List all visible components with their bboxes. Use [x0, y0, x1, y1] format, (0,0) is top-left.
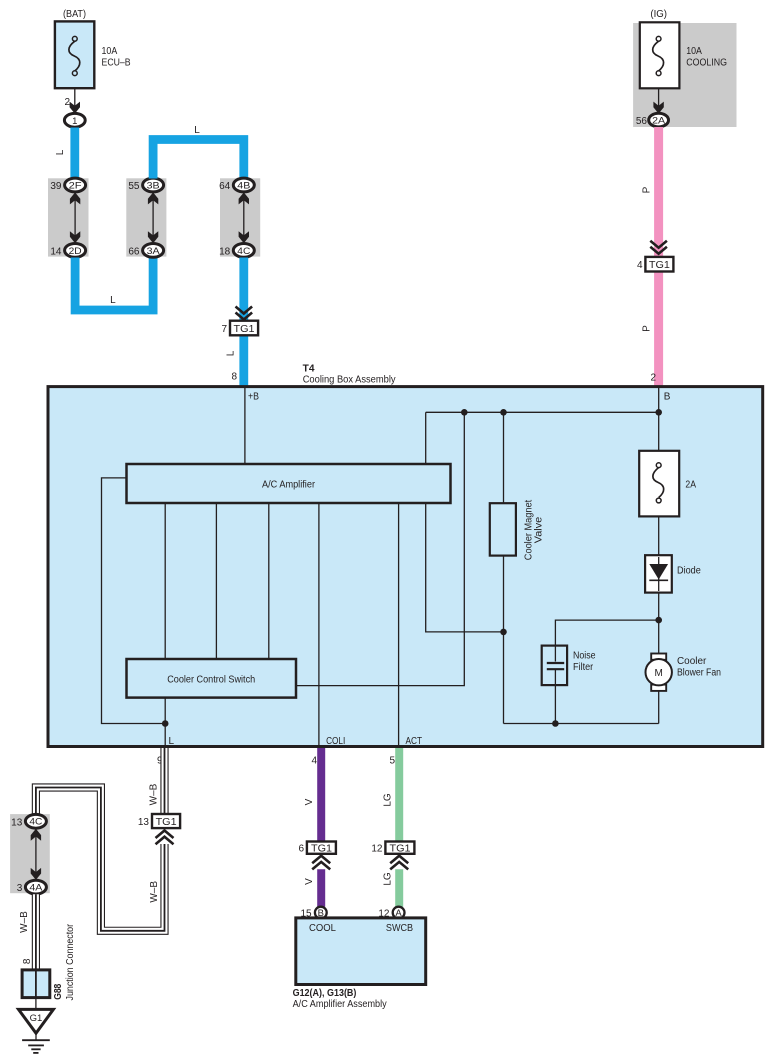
noise filter — [542, 646, 596, 724]
svg-text:LG: LG — [383, 872, 394, 886]
svg-text:Blower Fan: Blower Fan — [677, 668, 721, 679]
wire L (blue) 3B to 4B — [153, 125, 244, 179]
junction dot switch output — [162, 720, 169, 727]
wire LG (green) pin 5 to 12 TG1 — [383, 748, 400, 842]
svg-text:Diode: Diode — [677, 566, 701, 577]
svg-text:2F: 2F — [69, 180, 82, 191]
op A/C Amplifier box — [127, 464, 451, 503]
svg-text:G1: G1 — [30, 1013, 43, 1024]
svg-text:Junction Connector: Junction Connector — [65, 923, 76, 1000]
connector 13 TG1 — [138, 814, 180, 844]
fuse 2A — [639, 451, 696, 517]
svg-text:L: L — [226, 350, 237, 356]
svg-text:TG1: TG1 — [390, 844, 411, 855]
svg-text:4: 4 — [311, 756, 317, 767]
svg-text:4C: 4C — [237, 246, 250, 257]
svg-text:7: 7 — [221, 324, 227, 335]
svg-text:4B: 4B — [237, 180, 250, 191]
T4 cooling box assembly outline — [48, 387, 763, 747]
svg-text:10A: 10A — [102, 46, 118, 57]
svg-text:3A: 3A — [147, 246, 161, 257]
svg-text:2: 2 — [650, 372, 656, 383]
svg-text:Cooling Box Assembly: Cooling Box Assembly — [303, 375, 396, 386]
wire W-B 13 TG1 to 4C — [36, 788, 165, 931]
cooler magnet valve — [490, 412, 545, 723]
svg-text:14: 14 — [50, 246, 62, 257]
motor M cooler blower fan — [646, 654, 722, 691]
svg-text:W–B: W–B — [149, 783, 160, 805]
diode D1 — [645, 555, 701, 592]
svg-text:LG: LG — [383, 793, 394, 807]
connector block 4B/4C — [219, 178, 260, 257]
svg-text:2A: 2A — [652, 116, 666, 127]
svg-text:COLI: COLI — [326, 736, 345, 747]
svg-text:64: 64 — [219, 181, 231, 192]
svg-text:G88: G88 — [53, 983, 64, 999]
svg-text:1: 1 — [72, 116, 77, 127]
top rail inside T4 — [426, 411, 659, 413]
svg-text:Cooler: Cooler — [677, 656, 707, 667]
svg-text:A/C Amplifier Assembly: A/C Amplifier Assembly — [293, 999, 387, 1010]
wire amplifier bottom to magnet valve branch — [426, 503, 504, 632]
pin 2 of fuse, wire to node 1 — [64, 88, 80, 113]
svg-text:13: 13 — [11, 817, 23, 828]
wire rail to cooler control switch right — [296, 412, 464, 685]
svg-text:2: 2 — [64, 97, 70, 108]
wire motor to bottom rail — [658, 691, 660, 724]
svg-text:L: L — [194, 125, 200, 136]
svg-text:W–B: W–B — [19, 911, 30, 933]
svg-text:SWCB: SWCB — [386, 923, 413, 934]
svg-text:4C: 4C — [29, 817, 42, 828]
node A — [378, 907, 404, 920]
svg-text:TG1: TG1 — [234, 324, 255, 335]
wire W-B pin 9 to 13 TG1 — [149, 748, 165, 814]
svg-text:4: 4 — [637, 260, 643, 271]
svg-text:3B: 3B — [147, 180, 160, 191]
svg-text:3: 3 — [17, 883, 23, 894]
wire amplifier left loop to switch output — [102, 478, 166, 724]
wire L (blue) node 1 to connector 2F — [55, 128, 75, 181]
relay block background (IG) — [633, 23, 736, 127]
connector block 4C/4A — [10, 814, 50, 894]
svg-text:TG1: TG1 — [311, 844, 332, 855]
node B — [300, 907, 326, 920]
svg-text:4A: 4A — [29, 883, 43, 894]
svg-text:A/C Amplifier: A/C Amplifier — [262, 479, 316, 490]
svg-text:Cooler Control Switch: Cooler Control Switch — [167, 674, 255, 685]
svg-text:Noise: Noise — [573, 651, 596, 662]
svg-text:G12(A), G13(B): G12(A), G13(B) — [293, 988, 357, 999]
svg-text:6: 6 — [298, 844, 304, 855]
cooler control switch — [127, 659, 297, 698]
fuse 10A COOLING — [640, 22, 727, 88]
junction dot at valve branch — [500, 629, 507, 636]
svg-text:12: 12 — [371, 844, 383, 855]
svg-text:39: 39 — [50, 181, 62, 192]
svg-text:8: 8 — [22, 958, 33, 964]
svg-text:L: L — [55, 149, 66, 155]
svg-text:P: P — [642, 186, 653, 193]
wire +B to A/C amplifier — [244, 388, 246, 464]
connector 7 TG1 — [221, 307, 258, 336]
connector block 3B/3A — [126, 178, 166, 257]
svg-text:ECU–B: ECU–B — [102, 58, 131, 69]
svg-text:5: 5 — [389, 756, 395, 767]
svg-text:V: V — [304, 878, 315, 885]
wire V (violet) pin 4 to 6 TG1 — [304, 748, 321, 842]
connector 12 TG1 — [371, 842, 414, 870]
G12(A), G13(B) A/C Amplifier Assembly caption — [293, 988, 387, 1010]
junction dot noise filter bottom — [552, 720, 559, 727]
svg-text:2A: 2A — [685, 480, 696, 491]
junction dots on top rail — [461, 409, 468, 416]
wires amplifier to cooler control switch — [164, 503, 166, 659]
wire P (pink) 2A to T4 pin 2 — [642, 127, 659, 386]
svg-text:66: 66 — [128, 246, 140, 257]
fuse 10A ECU-B — [55, 21, 131, 88]
connector 6 TG1 — [298, 842, 335, 870]
bottom rail valve to motor — [504, 723, 659, 725]
wire COLI from amplifier to pin 4 — [318, 503, 320, 747]
svg-text:TG1: TG1 — [156, 817, 177, 828]
svg-text:L: L — [169, 736, 175, 747]
svg-text:B: B — [664, 392, 671, 403]
pin 56, wire to node 2A — [636, 88, 664, 127]
T4 Cooling Box Assembly title — [303, 364, 396, 386]
svg-text:Valve: Valve — [533, 516, 544, 543]
junction dot diode/noise filter — [655, 617, 662, 624]
svg-text:COOLING: COOLING — [686, 58, 727, 69]
svg-text:T4: T4 — [303, 364, 315, 375]
svg-text:+B: +B — [248, 392, 259, 403]
wire from rail to amplifier top — [425, 412, 427, 464]
svg-text:55: 55 — [128, 181, 140, 192]
svg-text:V: V — [304, 798, 315, 805]
svg-text:13: 13 — [138, 817, 150, 828]
svg-text:18: 18 — [219, 246, 231, 257]
svg-text:ACT: ACT — [406, 736, 423, 747]
wire L (blue) 2D to 3A — [75, 258, 153, 311]
svg-text:Filter: Filter — [573, 662, 594, 673]
svg-text:2D: 2D — [69, 246, 82, 257]
svg-text:8: 8 — [231, 372, 237, 383]
wire L (blue) 4C to T4 pin 8 — [226, 258, 244, 386]
svg-text:W–B: W–B — [149, 881, 160, 903]
wire V (violet) 6 TG1 to node B — [304, 869, 321, 907]
svg-text:P: P — [642, 325, 653, 332]
node 2A — [649, 113, 669, 127]
wire switch to pin 9 — [164, 698, 166, 747]
svg-text:(IG): (IG) — [650, 9, 667, 20]
node 1 — [64, 113, 85, 127]
wire diode to motor node — [658, 593, 660, 654]
svg-text:10A: 10A — [686, 46, 702, 57]
connector 4 TG1 — [637, 241, 673, 272]
A/C amplifier assembly box — [296, 918, 426, 985]
wire G88 to ground — [35, 998, 37, 1010]
svg-text:TG1: TG1 — [649, 260, 670, 271]
junction connector G88 — [22, 923, 76, 1000]
svg-text:(BAT): (BAT) — [63, 9, 86, 20]
wire to noise filter — [555, 620, 658, 647]
ground G1 — [19, 1009, 54, 1053]
svg-text:56: 56 — [636, 116, 648, 127]
svg-text:M: M — [655, 668, 663, 679]
wire W-B 4A to G88 — [19, 894, 36, 970]
svg-text:COOL: COOL — [309, 923, 336, 934]
connector block 2F/2D — [48, 178, 89, 257]
wire LG (green) 12 TG1 to node A — [383, 869, 400, 907]
wire B to fuse 2A — [658, 388, 660, 451]
wire ACT from amplifier to pin 5 — [398, 503, 400, 747]
wire fuse 2A to diode — [658, 516, 660, 555]
svg-text:L: L — [110, 295, 116, 306]
